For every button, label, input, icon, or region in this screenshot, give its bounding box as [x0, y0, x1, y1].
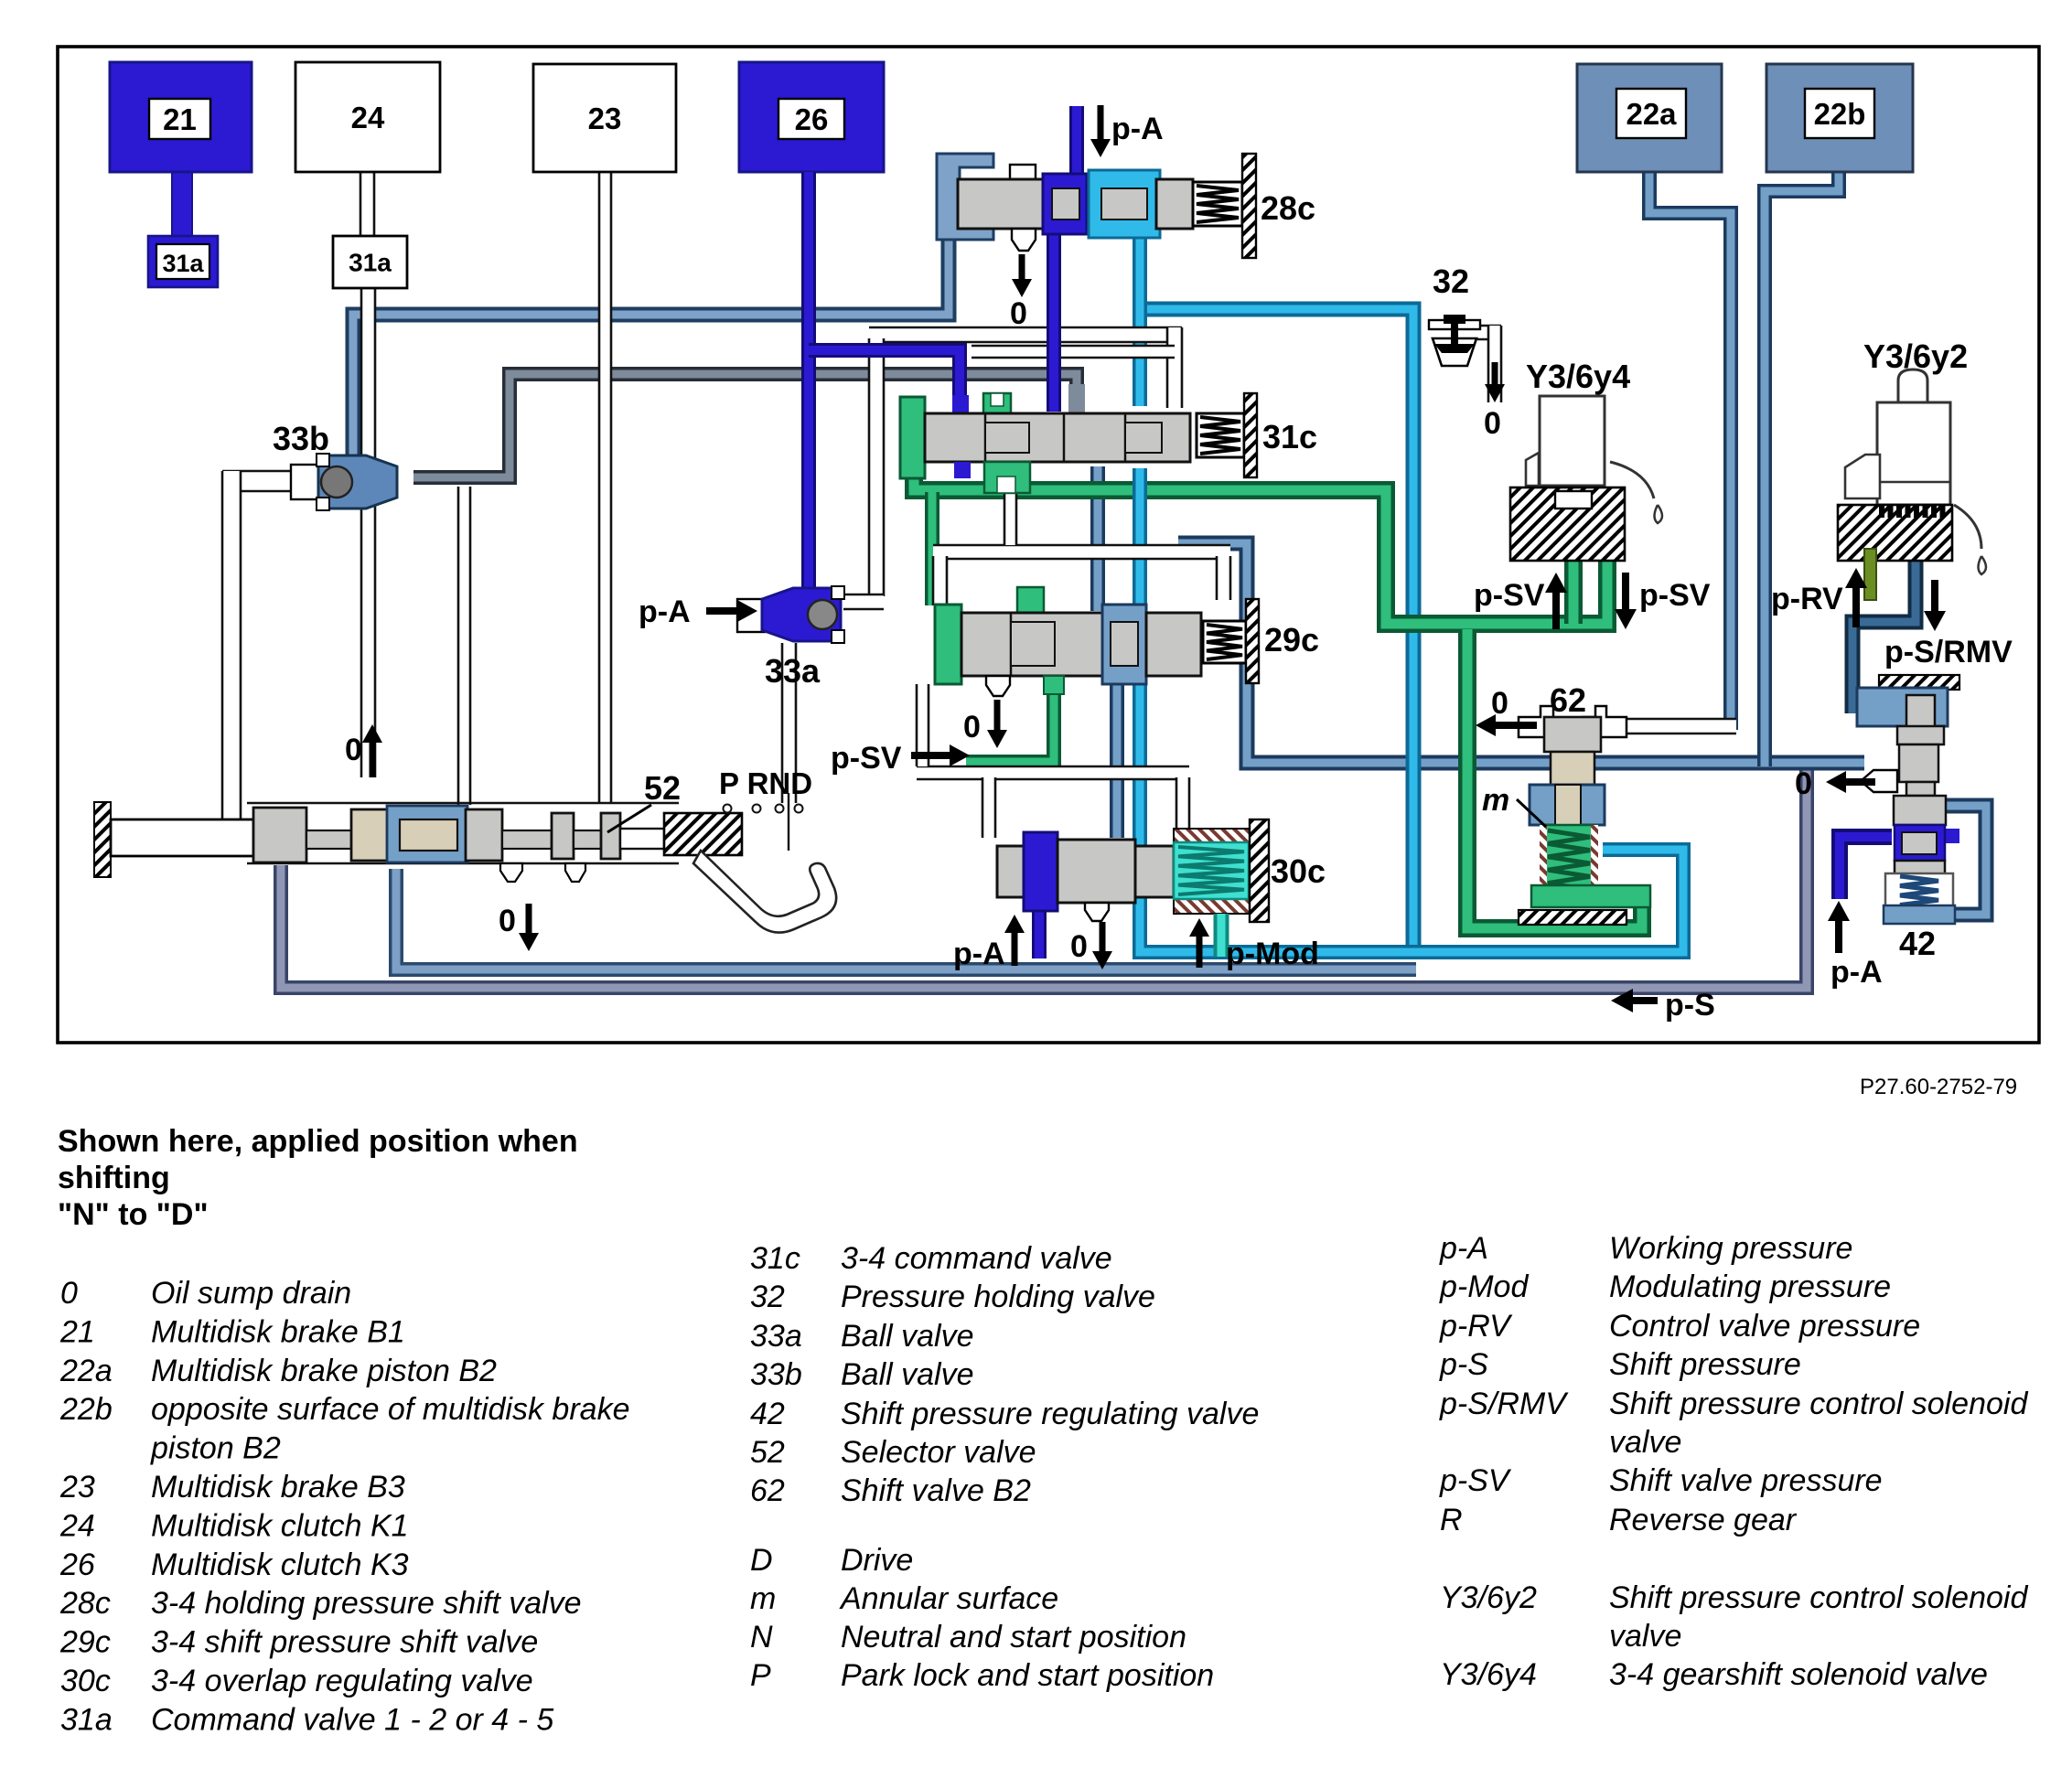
- svg-text:Pressure holding valve: Pressure holding valve: [841, 1280, 1155, 1314]
- svg-text:Neutral and start position: Neutral and start position: [841, 1620, 1186, 1655]
- svg-text:Multidisk clutch K3: Multidisk clutch K3: [151, 1547, 409, 1582]
- svg-text:p-S/RMV: p-S/RMV: [1439, 1387, 1569, 1421]
- svg-text:Reverse gear: Reverse gear: [1609, 1503, 1798, 1537]
- svg-text:30c: 30c: [60, 1664, 111, 1698]
- svg-text:32: 32: [1433, 262, 1469, 300]
- svg-text:Y3/6y4: Y3/6y4: [1440, 1657, 1537, 1692]
- svg-text:Multidisk brake piston B2: Multidisk brake piston B2: [151, 1354, 497, 1388]
- svg-text:p-Mod: p-Mod: [1226, 937, 1319, 971]
- svg-text:0: 0: [345, 733, 362, 767]
- svg-text:0: 0: [1070, 929, 1088, 964]
- svg-text:33a: 33a: [750, 1319, 802, 1354]
- svg-text:21: 21: [163, 102, 197, 136]
- svg-text:62: 62: [750, 1473, 785, 1508]
- svg-text:23: 23: [588, 102, 622, 135]
- svg-text:Drive: Drive: [841, 1543, 913, 1578]
- svg-text:Shift valve B2: Shift valve B2: [841, 1473, 1031, 1508]
- svg-text:Shown here, applied position w: Shown here, applied position when: [58, 1124, 578, 1159]
- svg-text:P27.60-2752-79: P27.60-2752-79: [1860, 1075, 2017, 1099]
- svg-text:piston B2: piston B2: [150, 1431, 281, 1466]
- svg-text:3-4 holding pressure shift val: 3-4 holding pressure shift valve: [151, 1586, 582, 1621]
- svg-text:29c: 29c: [59, 1625, 111, 1660]
- svg-text:Modulating pressure: Modulating pressure: [1609, 1269, 1891, 1304]
- svg-text:R: R: [1440, 1503, 1463, 1537]
- svg-text:52: 52: [750, 1435, 785, 1470]
- svg-text:24: 24: [351, 101, 385, 134]
- svg-text:22b: 22b: [59, 1392, 113, 1427]
- svg-text:valve: valve: [1609, 1425, 1681, 1460]
- svg-text:Shift valve pressure: Shift valve pressure: [1609, 1463, 1883, 1498]
- svg-text:p-RV: p-RV: [1439, 1309, 1513, 1344]
- svg-text:p-A: p-A: [1830, 955, 1883, 990]
- svg-text:Ball valve: Ball valve: [841, 1319, 974, 1354]
- svg-text:Shift pressure: Shift pressure: [1609, 1347, 1801, 1382]
- svg-text:p-S: p-S: [1665, 988, 1715, 1023]
- svg-text:Shift pressure control solenoi: Shift pressure control solenoid: [1609, 1387, 2028, 1421]
- svg-text:0: 0: [1484, 406, 1501, 441]
- svg-text:32: 32: [750, 1280, 785, 1314]
- svg-text:Shift pressure regulating valv: Shift pressure regulating valve: [841, 1397, 1259, 1431]
- svg-text:Y3/6y2: Y3/6y2: [1440, 1580, 1537, 1615]
- svg-text:Multidisk brake B3: Multidisk brake B3: [151, 1470, 405, 1505]
- svg-text:Ball valve: Ball valve: [841, 1357, 974, 1392]
- svg-text:p-SV: p-SV: [1439, 1463, 1512, 1498]
- svg-text:Control valve pressure: Control valve pressure: [1609, 1309, 1920, 1344]
- svg-text:P: P: [750, 1658, 771, 1693]
- svg-text:Oil sump drain: Oil sump drain: [151, 1276, 351, 1311]
- svg-text:26: 26: [59, 1547, 95, 1582]
- svg-text:p-S/RMV: p-S/RMV: [1884, 635, 2013, 669]
- svg-text:0: 0: [1795, 766, 1812, 801]
- svg-text:33a: 33a: [765, 652, 821, 690]
- svg-text:"N" to "D": "N" to "D": [58, 1197, 209, 1232]
- svg-text:opposite surface of multidisk: opposite surface of multidisk brake: [151, 1392, 629, 1427]
- svg-text:28c: 28c: [59, 1586, 111, 1621]
- svg-text:Multidisk clutch K1: Multidisk clutch K1: [151, 1508, 409, 1543]
- svg-text:p-Mod: p-Mod: [1439, 1269, 1529, 1304]
- svg-text:22b: 22b: [1814, 97, 1866, 131]
- svg-text:p-A: p-A: [953, 937, 1005, 971]
- svg-text:42: 42: [1899, 925, 1936, 962]
- svg-text:3-4 shift pressure shift valve: 3-4 shift pressure shift valve: [151, 1625, 538, 1660]
- svg-text:62: 62: [1550, 681, 1586, 719]
- svg-text:3-4 command valve: 3-4 command valve: [841, 1241, 1112, 1276]
- svg-text:42: 42: [750, 1397, 785, 1431]
- svg-text:0: 0: [1010, 296, 1027, 331]
- svg-text:shifting: shifting: [58, 1161, 170, 1195]
- svg-text:0: 0: [499, 904, 516, 938]
- svg-text:m: m: [1482, 783, 1509, 818]
- svg-text:p-SV: p-SV: [1639, 578, 1711, 613]
- svg-text:Y3/6y4: Y3/6y4: [1526, 358, 1630, 395]
- svg-text:52: 52: [644, 769, 681, 807]
- svg-text:p-A: p-A: [1111, 112, 1164, 146]
- svg-text:p-S: p-S: [1439, 1347, 1488, 1382]
- svg-text:P RND: P RND: [719, 766, 812, 800]
- svg-text:31a: 31a: [60, 1702, 113, 1737]
- svg-text:23: 23: [59, 1470, 95, 1505]
- svg-text:30c: 30c: [1271, 852, 1326, 890]
- svg-text:Shift pressure control solenoi: Shift pressure control solenoid: [1609, 1580, 2028, 1615]
- svg-text:Park lock and start position: Park lock and start position: [841, 1658, 1214, 1693]
- svg-text:26: 26: [795, 102, 829, 136]
- svg-text:Selector valve: Selector valve: [841, 1435, 1036, 1470]
- svg-text:m: m: [750, 1581, 776, 1616]
- svg-text:22a: 22a: [1626, 97, 1677, 131]
- svg-text:0: 0: [60, 1276, 78, 1311]
- svg-text:31c: 31c: [1262, 418, 1317, 455]
- svg-text:p-RV: p-RV: [1771, 582, 1843, 616]
- svg-text:D: D: [750, 1543, 773, 1578]
- svg-text:Command valve 1 - 2 or 4 - 5: Command valve 1 - 2 or 4 - 5: [151, 1702, 553, 1737]
- svg-text:22a: 22a: [59, 1354, 113, 1388]
- svg-text:31a: 31a: [349, 249, 392, 277]
- svg-text:33b: 33b: [273, 420, 329, 457]
- svg-text:p-SV: p-SV: [1474, 578, 1545, 613]
- svg-text:21: 21: [59, 1314, 95, 1349]
- svg-text:3-4 gearshift solenoid valve: 3-4 gearshift solenoid valve: [1609, 1657, 1988, 1692]
- svg-text:28c: 28c: [1261, 189, 1315, 227]
- svg-text:valve: valve: [1609, 1619, 1681, 1654]
- svg-text:Working pressure: Working pressure: [1609, 1231, 1852, 1266]
- svg-text:N: N: [750, 1620, 773, 1655]
- svg-text:p-A: p-A: [639, 594, 691, 629]
- svg-text:Annular surface: Annular surface: [839, 1581, 1058, 1616]
- svg-text:24: 24: [59, 1508, 95, 1543]
- svg-text:3-4 overlap regulating valve: 3-4 overlap regulating valve: [151, 1664, 533, 1698]
- svg-text:p-A: p-A: [1439, 1231, 1488, 1266]
- svg-text:31c: 31c: [750, 1241, 800, 1276]
- svg-text:29c: 29c: [1264, 621, 1319, 659]
- svg-text:Multidisk brake B1: Multidisk brake B1: [151, 1314, 405, 1349]
- svg-text:p-SV: p-SV: [831, 741, 902, 776]
- svg-text:0: 0: [963, 710, 981, 744]
- svg-text:31a: 31a: [162, 250, 204, 277]
- svg-text:33b: 33b: [750, 1357, 802, 1392]
